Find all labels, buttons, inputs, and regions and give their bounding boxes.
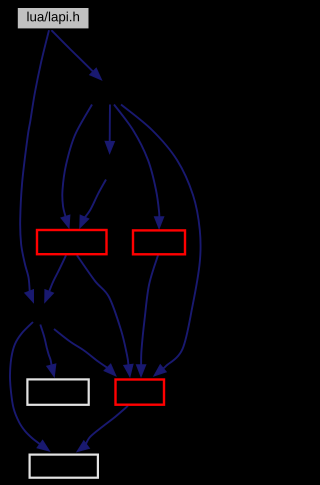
node W1: limits.h	[27, 379, 88, 404]
node lzio.h (hidden, black on black)	[78, 156, 140, 180]
wire: edge lstate.h -> ltm.h	[114, 105, 159, 219]
wire: edge lstate.h -> lzio.h (vertical)	[109, 105, 111, 144]
node W2: stddef.h	[30, 455, 98, 478]
wire: edge lua/lapi.h -> lstate.h	[51, 30, 94, 73]
wire: edge lobject.h -> llimits.h	[49, 255, 66, 293]
node root: lua/lapi.h (gray fill)	[17, 7, 89, 29]
wire: edge lobject.h -> lua.h	[77, 255, 129, 366]
wire: edge lua/lapi.h -> llimits.h (long left curve)	[20, 30, 49, 293]
wire: edge lzio.h -> lmem.h	[84, 180, 106, 219]
node R2: ltm.h (red, truncated)	[133, 230, 185, 254]
wire: edge llimits.h -> stddef.h (left curve)	[10, 322, 41, 445]
node llimits.h (hidden, black on black)	[22, 304, 54, 329]
wire: edge llimits.h -> limits.h	[40, 325, 52, 367]
node R3: lua.h (red, truncated)	[116, 380, 165, 405]
wire: edge lstate.h -> lua.h (outer right curve)	[121, 105, 201, 370]
wire: edge ltm.h -> lua.h	[141, 255, 158, 366]
wire: edge lstate.h -> lobject.h (left bow)	[62, 105, 92, 219]
node lstate.h (hidden, black on black)	[75, 81, 141, 105]
node R1: lobject.h (red, truncated)	[37, 230, 107, 254]
wire: edge llimits.h -> lua.h (shallow diagonal)	[54, 329, 109, 369]
wire: edge lua.h -> stddef.h	[85, 406, 128, 446]
